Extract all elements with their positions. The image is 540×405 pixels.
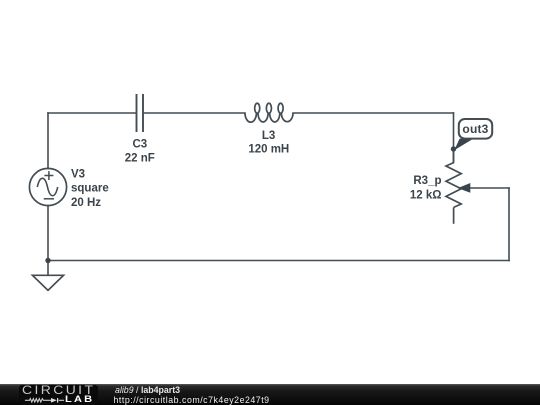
label V3 value <box>71 168 109 209</box>
wire left vertical upper <box>47 113 49 169</box>
wire top-left horizontal <box>48 112 136 114</box>
svg-text:C3: C3 <box>132 139 147 151</box>
label C3 value <box>125 139 155 165</box>
wiper arrow of R3_p <box>458 183 471 193</box>
svg-text:20 Hz: 20 Hz <box>71 197 101 209</box>
wire left vertical lower <box>47 206 49 261</box>
wire wiper horizontal <box>469 187 509 189</box>
node out3 junction dot <box>451 146 456 151</box>
node out3 flag pointer <box>454 139 473 151</box>
CircuitLab logo dark backdrop <box>19 385 98 405</box>
wire top-right horizontal <box>293 112 454 114</box>
resistor R3_p (potentiometer) <box>446 149 461 224</box>
svg-text:120 mH: 120 mH <box>248 143 289 155</box>
ground <box>33 261 64 291</box>
svg-text:out3: out3 <box>462 122 488 136</box>
footer bar <box>0 384 540 405</box>
wire top-middle horizontal <box>144 112 245 114</box>
node junction at ground <box>45 258 50 263</box>
node out3 flag box <box>459 119 492 139</box>
svg-text:square: square <box>71 183 109 195</box>
CircuitLab logo schematic glyph (resistor + diode) <box>24 396 66 405</box>
wire right vertical lower <box>508 188 510 261</box>
label L3 value <box>248 130 289 156</box>
wire right vertical to out3 node <box>453 113 455 163</box>
footer url line <box>114 396 270 405</box>
inductor L3 <box>245 103 293 122</box>
CircuitLab logo wordmark CIRCUIT <box>22 385 95 397</box>
svg-text:R3_p: R3_p <box>413 175 441 187</box>
voltage source V3 <box>29 168 66 205</box>
capacitor C3 <box>137 94 144 132</box>
label R3_p value <box>410 175 442 201</box>
wire bottom horizontal <box>48 260 509 262</box>
svg-text:V3: V3 <box>71 168 85 180</box>
footer title line <box>115 386 180 395</box>
svg-text:22 nF: 22 nF <box>125 152 155 164</box>
CircuitLab logo wordmark LAB <box>65 395 94 404</box>
svg-text:L3: L3 <box>262 130 275 142</box>
svg-text:12 kΩ: 12 kΩ <box>410 190 442 202</box>
